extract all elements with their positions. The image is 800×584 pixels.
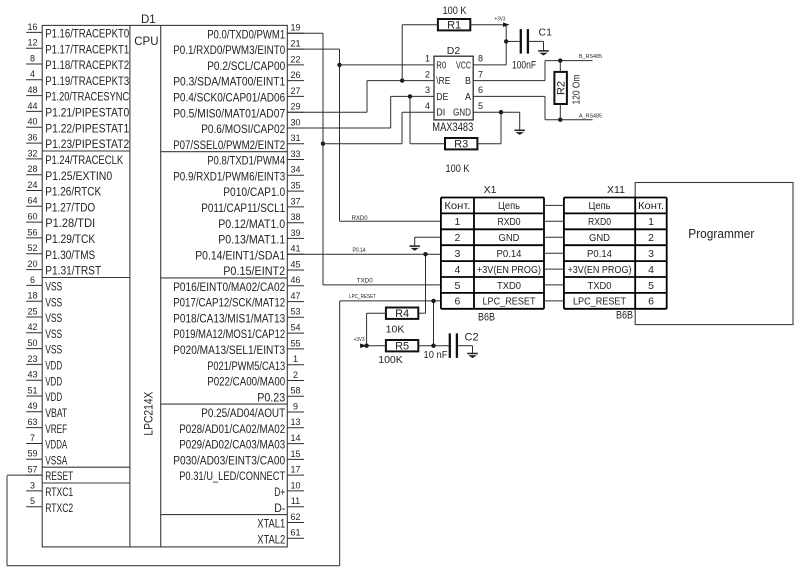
- svg-text:DE: DE: [436, 92, 448, 103]
- svg-text:P1.16/TRACEPKT0: P1.16/TRACEPKT0: [45, 27, 129, 41]
- svg-text:D2: D2: [447, 45, 461, 57]
- svg-text:P0.25/AD04/AOUT: P0.25/AD04/AOUT: [201, 406, 285, 420]
- svg-text:5: 5: [454, 280, 460, 292]
- svg-text:38: 38: [290, 212, 300, 222]
- svg-text:2: 2: [454, 232, 460, 244]
- svg-text:3: 3: [425, 85, 430, 95]
- svg-text:9: 9: [293, 401, 298, 411]
- svg-text:2: 2: [648, 232, 654, 244]
- svg-text:RXD0: RXD0: [498, 216, 521, 228]
- svg-text:50: 50: [27, 338, 37, 348]
- svg-text:VDDA: VDDA: [45, 438, 68, 452]
- svg-text:6: 6: [478, 85, 483, 95]
- svg-text:VREF: VREF: [45, 422, 67, 436]
- svg-text:P0.0/TXD0/PWM1: P0.0/TXD0/PWM1: [207, 27, 285, 41]
- svg-text:P1.21/PIPESTAT0: P1.21/PIPESTAT0: [45, 106, 129, 120]
- svg-text:D+: D+: [274, 485, 285, 499]
- svg-text:4: 4: [425, 101, 430, 111]
- svg-text:25: 25: [27, 306, 37, 316]
- svg-text:64: 64: [27, 196, 37, 206]
- svg-text:VSS: VSS: [45, 280, 62, 294]
- svg-text:TXD0: TXD0: [588, 280, 612, 292]
- svg-text:RXD0: RXD0: [352, 216, 369, 222]
- svg-text:+3V3: +3V3: [354, 337, 365, 343]
- svg-text:R3: R3: [454, 139, 468, 151]
- svg-text:P0.6/MOSI/CAP02: P0.6/MOSI/CAP02: [201, 122, 285, 136]
- svg-text:43: 43: [27, 370, 37, 380]
- svg-text:P1.22/PIPESTAT1: P1.22/PIPESTAT1: [45, 121, 129, 135]
- svg-text:P016/EINT0/MA02/CA02: P016/EINT0/MA02/CA02: [173, 280, 285, 294]
- svg-text:54: 54: [290, 323, 300, 333]
- svg-text:P0.2/SCL/CAP00: P0.2/SCL/CAP00: [207, 59, 285, 73]
- svg-text:P022/CA00/MA00: P022/CA00/MA00: [207, 375, 285, 389]
- svg-text:XTAL2: XTAL2: [257, 532, 285, 546]
- svg-text:46: 46: [290, 275, 300, 285]
- svg-text:4: 4: [30, 69, 35, 79]
- svg-text:2: 2: [425, 69, 430, 79]
- svg-text:P0.15/EINT2: P0.15/EINT2: [223, 264, 285, 278]
- svg-text:P0.31/U_LED/CONNECT: P0.31/U_LED/CONNECT: [179, 469, 285, 483]
- svg-text:LPC_RESET: LPC_RESET: [573, 296, 626, 308]
- svg-text:P1.25/EXTIN0: P1.25/EXTIN0: [45, 169, 112, 183]
- svg-text:P1.28/TDI: P1.28/TDI: [45, 216, 95, 230]
- svg-text:VSS: VSS: [45, 327, 62, 341]
- svg-text:P1.19/TRACEPKT3: P1.19/TRACEPKT3: [45, 74, 129, 88]
- svg-text:P018/CA13/MIS1/MAT13: P018/CA13/MIS1/MAT13: [173, 311, 285, 325]
- svg-text:55: 55: [290, 338, 300, 348]
- svg-text:47: 47: [290, 291, 300, 301]
- svg-text:P1.17/TRACEPKT1: P1.17/TRACEPKT1: [45, 42, 129, 56]
- svg-text:X1: X1: [484, 184, 497, 196]
- svg-text:59: 59: [27, 449, 37, 459]
- svg-text:LPC_RESET: LPC_RESET: [349, 294, 377, 300]
- svg-text:32: 32: [27, 148, 37, 158]
- svg-text:R5: R5: [395, 341, 409, 353]
- svg-text:44: 44: [27, 101, 37, 111]
- svg-text:VSS: VSS: [45, 295, 62, 309]
- svg-text:100nF: 100nF: [512, 60, 536, 72]
- svg-text:58: 58: [290, 386, 300, 396]
- svg-text:26: 26: [290, 70, 300, 80]
- svg-text:6: 6: [454, 296, 460, 308]
- svg-text:CPU: CPU: [134, 36, 158, 48]
- svg-text:TXD0: TXD0: [357, 278, 374, 284]
- svg-text:P011/CAP11/SCL1: P011/CAP11/SCL1: [201, 201, 285, 215]
- svg-text:P017/CAP12/SCK/MAT12: P017/CAP12/SCK/MAT12: [173, 296, 285, 310]
- svg-text:RXD0: RXD0: [588, 216, 611, 228]
- svg-text:20: 20: [27, 259, 37, 269]
- svg-text:35: 35: [290, 181, 300, 191]
- svg-text:8: 8: [478, 54, 483, 64]
- svg-text:2: 2: [293, 370, 298, 380]
- svg-text:P030/AD03/EINT3/CA00: P030/AD03/EINT3/CA00: [173, 454, 285, 468]
- svg-text:R0: R0: [436, 60, 446, 71]
- svg-text:RTXC2: RTXC2: [45, 501, 73, 515]
- svg-text:57: 57: [27, 465, 37, 475]
- svg-text:61: 61: [290, 528, 300, 538]
- svg-text:P010/CAP1.0: P010/CAP1.0: [223, 185, 285, 199]
- svg-text:A: A: [465, 92, 471, 103]
- svg-text:P028/AD01/CA02/MA02: P028/AD01/CA02/MA02: [179, 422, 285, 436]
- svg-text:P0.13/MAT1.1: P0.13/MAT1.1: [218, 233, 285, 247]
- svg-text:R1: R1: [447, 20, 461, 32]
- svg-text:4: 4: [648, 264, 654, 276]
- svg-text:Конт.: Конт.: [444, 200, 470, 212]
- svg-text:R4: R4: [395, 308, 409, 320]
- svg-text:56: 56: [27, 227, 37, 237]
- svg-text:49: 49: [27, 401, 37, 411]
- svg-text:VCC: VCC: [456, 60, 471, 71]
- svg-text:1: 1: [648, 216, 654, 228]
- svg-text:B_RS485: B_RS485: [579, 54, 602, 60]
- svg-text:VSS: VSS: [45, 311, 62, 325]
- svg-text:P07/SSEL0/PWM2/EINT2: P07/SSEL0/PWM2/EINT2: [173, 138, 285, 152]
- svg-text:3: 3: [30, 480, 35, 490]
- svg-text:P1.26/RTCK: P1.26/RTCK: [45, 185, 102, 199]
- svg-text:13: 13: [290, 417, 300, 427]
- svg-text:100 K: 100 K: [443, 5, 468, 17]
- svg-text:B6B: B6B: [478, 311, 495, 323]
- svg-text:P1.30/TMS: P1.30/TMS: [45, 248, 95, 262]
- svg-text:P1.24/TRACECLK: P1.24/TRACECLK: [45, 153, 124, 167]
- svg-text:28: 28: [27, 164, 37, 174]
- svg-text:Конт.: Конт.: [638, 200, 664, 212]
- svg-text:16: 16: [27, 22, 37, 32]
- svg-text:5: 5: [648, 280, 654, 292]
- svg-text:1: 1: [425, 54, 430, 64]
- svg-text:1: 1: [454, 216, 460, 228]
- svg-text:48: 48: [27, 85, 37, 95]
- svg-text:P0.12/MAT1.0: P0.12/MAT1.0: [218, 217, 285, 231]
- svg-text:Цепь: Цепь: [498, 200, 520, 212]
- svg-text:VSS: VSS: [45, 343, 62, 357]
- svg-text:10 nF: 10 nF: [424, 349, 448, 361]
- svg-text:GND: GND: [453, 108, 471, 119]
- svg-text:14: 14: [290, 433, 300, 443]
- svg-text:Цепь: Цепь: [589, 200, 611, 212]
- svg-text:P0.14: P0.14: [497, 248, 522, 260]
- svg-text:36: 36: [27, 133, 37, 143]
- svg-text:P0.3/SDA/MAT00/EINT1: P0.3/SDA/MAT00/EINT1: [173, 75, 285, 89]
- svg-text:19: 19: [290, 23, 300, 33]
- svg-text:P1.18/TRACEPKT2: P1.18/TRACEPKT2: [45, 58, 129, 72]
- svg-text:15: 15: [290, 449, 300, 459]
- svg-text:X11: X11: [607, 184, 625, 196]
- svg-text:33: 33: [290, 149, 300, 159]
- svg-text:10: 10: [290, 480, 300, 490]
- svg-text:Programmer: Programmer: [688, 226, 755, 241]
- svg-text:B6B: B6B: [616, 309, 633, 321]
- svg-text:7: 7: [30, 433, 35, 443]
- svg-text:RESET: RESET: [45, 469, 73, 483]
- svg-text:DI: DI: [436, 108, 445, 119]
- svg-text:P1.23/PIPESTAT2: P1.23/PIPESTAT2: [45, 137, 129, 151]
- svg-text:53: 53: [290, 307, 300, 317]
- svg-text:D-: D-: [274, 501, 285, 515]
- svg-text:23: 23: [27, 354, 37, 364]
- svg-text:5: 5: [30, 496, 35, 506]
- svg-text:P020/MA13/SEL1/EINT3: P020/MA13/SEL1/EINT3: [173, 343, 285, 357]
- svg-text:GND: GND: [589, 232, 610, 244]
- svg-text:18: 18: [27, 291, 37, 301]
- svg-text:3: 3: [648, 248, 654, 260]
- svg-text:100K: 100K: [378, 354, 403, 366]
- svg-text:30: 30: [290, 117, 300, 127]
- svg-text:17: 17: [290, 465, 300, 475]
- svg-text:39: 39: [290, 228, 300, 238]
- svg-text:11: 11: [291, 496, 300, 506]
- svg-text:63: 63: [27, 417, 37, 427]
- svg-text:P0.8/TXD1/PWM4: P0.8/TXD1/PWM4: [207, 154, 285, 168]
- svg-text:10K: 10K: [386, 324, 405, 336]
- svg-text:P0.14: P0.14: [587, 248, 612, 260]
- svg-text:31: 31: [290, 133, 300, 143]
- svg-text:24: 24: [27, 180, 37, 190]
- svg-text:7: 7: [478, 69, 483, 79]
- svg-text:6: 6: [648, 296, 654, 308]
- svg-text:21: 21: [290, 39, 300, 49]
- svg-text:P029/AD02/CA03/MA03: P029/AD02/CA03/MA03: [179, 438, 285, 452]
- svg-text:41: 41: [290, 244, 300, 254]
- svg-text:60: 60: [27, 212, 37, 222]
- svg-text:P1.20/TRACESYNC: P1.20/TRACESYNC: [45, 90, 129, 104]
- svg-text:51: 51: [27, 385, 37, 395]
- svg-text:TXD0: TXD0: [497, 280, 521, 292]
- svg-text:\RE: \RE: [436, 76, 450, 87]
- svg-text:GND: GND: [499, 232, 520, 244]
- svg-text:VDD: VDD: [45, 374, 62, 388]
- svg-text:B: B: [465, 76, 471, 87]
- svg-text:P0.14: P0.14: [353, 248, 367, 254]
- svg-text:62: 62: [290, 512, 300, 522]
- svg-text:MAX3483: MAX3483: [432, 122, 473, 134]
- svg-text:6: 6: [30, 275, 35, 285]
- svg-text:5: 5: [478, 101, 483, 111]
- svg-text:40: 40: [27, 117, 37, 127]
- svg-text:VDD: VDD: [45, 390, 62, 404]
- svg-text:120 Om: 120 Om: [571, 74, 583, 104]
- svg-text:34: 34: [290, 165, 300, 175]
- svg-text:P0.1/RXD0/PWM3/EINT0: P0.1/RXD0/PWM3/EINT0: [173, 43, 285, 57]
- svg-text:+3V3: +3V3: [495, 17, 506, 23]
- svg-text:P021/PWM5/CA13: P021/PWM5/CA13: [207, 359, 285, 373]
- svg-text:XTAL1: XTAL1: [257, 517, 285, 531]
- svg-text:P0.9/RXD1/PWM6/EINT3: P0.9/RXD1/PWM6/EINT3: [173, 169, 285, 183]
- svg-text:LPC_RESET: LPC_RESET: [483, 296, 536, 308]
- svg-text:P1.27/TDO: P1.27/TDO: [45, 200, 95, 214]
- svg-text:P019/MA12/MOS1/CAP12: P019/MA12/MOS1/CAP12: [173, 327, 285, 341]
- svg-text:22: 22: [290, 54, 300, 64]
- svg-text:27: 27: [290, 86, 300, 96]
- svg-text:8: 8: [30, 53, 35, 63]
- svg-text:12: 12: [27, 38, 37, 48]
- svg-text:D1: D1: [141, 14, 156, 26]
- svg-text:A_RS485: A_RS485: [579, 113, 602, 119]
- svg-text:VDD: VDD: [45, 359, 62, 373]
- svg-text:42: 42: [27, 322, 37, 332]
- svg-text:P0.5/MIS0/MAT01/AD07: P0.5/MIS0/MAT01/AD07: [173, 106, 285, 120]
- svg-text:+3V(EN PROG): +3V(EN PROG): [477, 264, 541, 276]
- svg-text:52: 52: [27, 243, 37, 253]
- svg-text:37: 37: [290, 196, 300, 206]
- svg-text:45: 45: [290, 259, 300, 269]
- svg-text:29: 29: [290, 102, 300, 112]
- svg-text:P1.31/TRST: P1.31/TRST: [45, 264, 101, 278]
- svg-text:LPC214X: LPC214X: [144, 391, 156, 435]
- svg-text:VBAT: VBAT: [45, 406, 67, 420]
- svg-text:1: 1: [293, 354, 298, 364]
- svg-text:4: 4: [454, 264, 460, 276]
- svg-text:RTXC1: RTXC1: [45, 485, 73, 499]
- svg-text:3: 3: [454, 248, 460, 260]
- svg-text:VSSA: VSSA: [45, 453, 68, 467]
- svg-text:P0.4/SCK0/CAP01/AD06: P0.4/SCK0/CAP01/AD06: [173, 91, 285, 105]
- svg-text:100 K: 100 K: [446, 163, 471, 175]
- svg-text:+3V(EN PROG): +3V(EN PROG): [568, 264, 632, 276]
- svg-text:P1.29/TCK: P1.29/TCK: [45, 232, 96, 246]
- svg-text:C1: C1: [539, 27, 553, 39]
- svg-text:P0.14/EINT1/SDA1: P0.14/EINT1/SDA1: [195, 248, 285, 262]
- svg-text:R2: R2: [555, 81, 567, 95]
- svg-text:C2: C2: [465, 332, 479, 344]
- svg-text:P0.23: P0.23: [257, 390, 285, 404]
